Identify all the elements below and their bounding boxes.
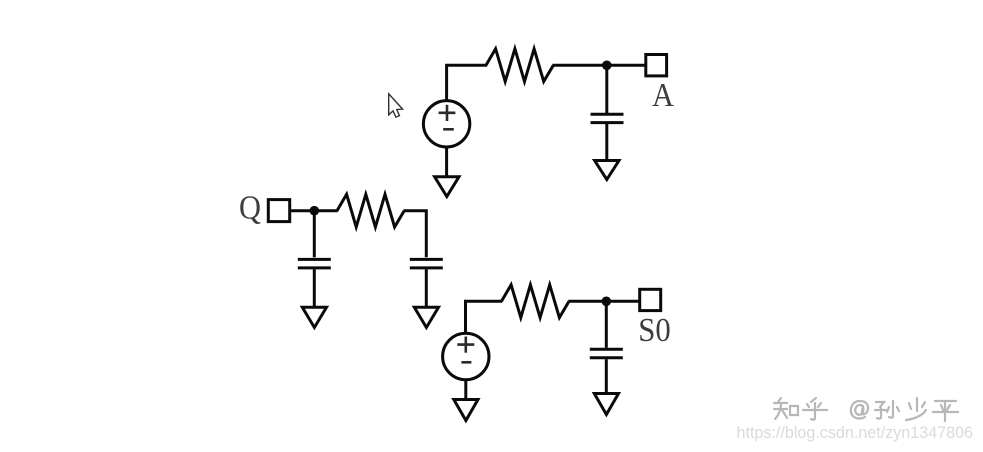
glyph zhi bbox=[774, 398, 798, 419]
svg-text:A: A bbox=[652, 77, 674, 114]
resistor R1 bbox=[486, 49, 553, 82]
glyph at bbox=[851, 401, 868, 419]
terminal square Q bbox=[268, 200, 289, 222]
terminal square A bbox=[646, 55, 667, 76]
wire capacitor C4 to ground bbox=[605, 359, 608, 393]
svg-text:S0: S0 bbox=[638, 312, 671, 349]
watermark zhihu text bbox=[774, 398, 958, 421]
ground under C4 bbox=[594, 394, 618, 415]
capacitor C3 bbox=[410, 259, 443, 268]
V2 plus sign bbox=[457, 337, 474, 353]
voltage source V1 bbox=[423, 101, 469, 147]
wire resistor R1 to terminal A bbox=[553, 64, 646, 67]
wire V2 to ground bbox=[464, 380, 467, 400]
ground under C1 bbox=[595, 161, 619, 180]
svg-text:Q: Q bbox=[239, 189, 261, 226]
capacitor C2 bbox=[298, 259, 331, 268]
mouse cursor bbox=[389, 94, 403, 117]
node junction dot top bbox=[602, 61, 612, 71]
ground under C2 bbox=[302, 307, 326, 327]
glyph hu bbox=[803, 398, 827, 420]
V2 minus sign bbox=[461, 361, 471, 364]
wire resistor R2 to capacitor C3 bbox=[404, 211, 427, 258]
wire terminal Q to resistor R2 bbox=[290, 209, 338, 212]
ground under V1 bbox=[435, 177, 459, 197]
ground under V2 bbox=[454, 400, 478, 421]
glyph sun bbox=[875, 401, 899, 419]
wire capacitor C1 to ground bbox=[605, 124, 608, 161]
wire capacitor C2 to ground bbox=[313, 269, 316, 307]
capacitor C1 bbox=[591, 114, 624, 122]
wire resistor R3 to terminal S0 bbox=[568, 300, 639, 303]
V1 minus sign bbox=[443, 128, 454, 131]
resistor R3 bbox=[502, 285, 570, 318]
svg-text:https://blog.csdn.net/zyn13478: https://blog.csdn.net/zyn1347806 bbox=[737, 423, 974, 442]
wire junction to capacitor C2 bbox=[313, 211, 316, 258]
wire V1 to ground bbox=[445, 147, 448, 177]
node junction dot middle bbox=[310, 206, 320, 216]
ground under C3 bbox=[414, 307, 438, 327]
wire junction to capacitor C1 bbox=[605, 65, 608, 113]
glyph shao bbox=[906, 398, 926, 420]
glyph ping bbox=[933, 401, 958, 421]
wire junction to capacitor C4 bbox=[605, 301, 608, 348]
voltage source V2 bbox=[443, 333, 489, 379]
V1 plus sign bbox=[439, 105, 456, 121]
wire capacitor C3 to ground bbox=[425, 269, 428, 307]
capacitor C4 bbox=[590, 349, 623, 358]
resistor R2 bbox=[337, 194, 404, 227]
wire bottom source to resistor bbox=[466, 301, 503, 333]
wire top source to resistor bbox=[447, 65, 487, 100]
node junction dot bottom bbox=[602, 297, 612, 307]
terminal square S0 bbox=[640, 289, 661, 310]
